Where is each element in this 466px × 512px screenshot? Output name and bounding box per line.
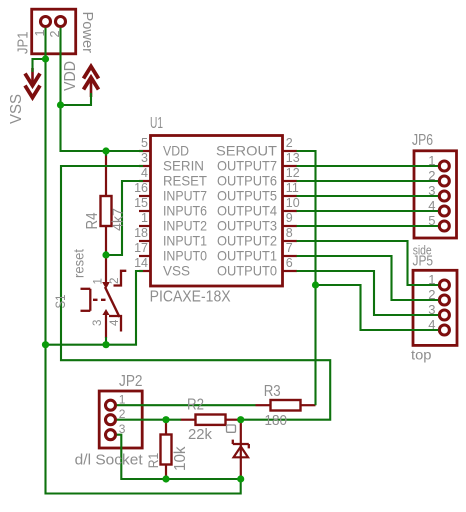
svg-text:13: 13 [286, 151, 300, 165]
svg-text:SERIN: SERIN [163, 158, 204, 174]
svg-text:2: 2 [286, 136, 293, 150]
svg-text:5: 5 [141, 136, 148, 150]
svg-text:INPUT1: INPUT1 [163, 233, 207, 249]
svg-text:3: 3 [428, 302, 435, 317]
svg-text:2: 2 [48, 30, 62, 37]
svg-text:180: 180 [265, 412, 288, 429]
svg-text:17: 17 [134, 241, 148, 255]
svg-text:OUTPUT4: OUTPUT4 [217, 203, 277, 219]
svg-text:INPUT2: INPUT2 [163, 218, 207, 234]
svg-text:S1: S1 [52, 294, 68, 308]
svg-text:VDD: VDD [62, 61, 79, 91]
svg-text:OUTPUT2: OUTPUT2 [217, 233, 277, 249]
svg-text:2: 2 [428, 168, 435, 183]
svg-text:10k: 10k [172, 446, 189, 471]
svg-text:JP2: JP2 [119, 373, 143, 390]
svg-text:3: 3 [428, 183, 435, 198]
svg-text:PICAXE-18X: PICAXE-18X [150, 288, 231, 305]
svg-text:RESET: RESET [163, 173, 207, 189]
svg-text:3: 3 [141, 151, 148, 165]
svg-text:1: 1 [93, 278, 105, 284]
svg-text:2: 2 [119, 407, 126, 421]
svg-text:Power: Power [79, 12, 95, 54]
svg-text:8: 8 [286, 226, 293, 240]
svg-text:18: 18 [134, 226, 148, 240]
svg-text:d/l Socket: d/l Socket [75, 452, 143, 468]
svg-text:1: 1 [428, 153, 435, 168]
svg-text:OUTPUT6: OUTPUT6 [217, 173, 277, 189]
svg-text:R4: R4 [84, 212, 101, 229]
svg-text:12: 12 [286, 166, 300, 180]
svg-text:OUTPUT3: OUTPUT3 [217, 218, 277, 234]
svg-text:JP1: JP1 [16, 32, 32, 55]
svg-text:VSS: VSS [8, 94, 25, 124]
svg-text:OUTPUT5: OUTPUT5 [217, 188, 277, 204]
svg-text:3: 3 [92, 320, 104, 326]
svg-text:11: 11 [286, 181, 299, 195]
svg-text:U1: U1 [150, 115, 163, 132]
svg-text:10: 10 [286, 196, 300, 210]
svg-text:R3: R3 [264, 383, 281, 400]
svg-text:7: 7 [286, 241, 293, 255]
svg-text:22k: 22k [188, 426, 212, 443]
svg-text:4k7: 4k7 [111, 208, 127, 231]
svg-text:4: 4 [109, 319, 121, 326]
svg-text:4: 4 [428, 317, 435, 332]
svg-text:R1: R1 [146, 453, 161, 469]
svg-text:9: 9 [286, 211, 293, 225]
svg-text:1: 1 [33, 30, 47, 37]
svg-text:6: 6 [286, 256, 293, 270]
svg-text:INPUT7: INPUT7 [163, 188, 207, 204]
svg-text:OUTPUT7: OUTPUT7 [217, 158, 277, 174]
svg-text:1: 1 [428, 272, 435, 287]
svg-text:OUTPUT1: OUTPUT1 [217, 248, 277, 264]
svg-text:INPUT6: INPUT6 [163, 203, 207, 219]
svg-text:top: top [411, 348, 432, 363]
svg-text:1: 1 [119, 393, 126, 407]
svg-text:2: 2 [109, 278, 121, 284]
svg-text:reset: reset [71, 249, 87, 278]
svg-text:INPUT0: INPUT0 [163, 248, 207, 264]
svg-text:SEROUT: SEROUT [216, 143, 277, 159]
svg-text:OUTPUT0: OUTPUT0 [217, 263, 277, 279]
svg-text:VDD: VDD [163, 143, 189, 159]
svg-text:16: 16 [134, 181, 148, 195]
svg-text:3: 3 [119, 422, 126, 436]
svg-text:5: 5 [428, 213, 435, 228]
svg-text:VSS: VSS [163, 263, 190, 279]
svg-text:JP5: JP5 [413, 253, 434, 270]
svg-text:4: 4 [141, 166, 148, 180]
svg-text:14: 14 [134, 256, 148, 270]
svg-text:4: 4 [428, 198, 435, 213]
svg-text:R2: R2 [187, 397, 204, 414]
svg-text:JP6: JP6 [412, 132, 433, 149]
svg-text:15: 15 [134, 196, 148, 210]
svg-text:2: 2 [428, 287, 435, 302]
svg-text:1: 1 [141, 211, 148, 225]
